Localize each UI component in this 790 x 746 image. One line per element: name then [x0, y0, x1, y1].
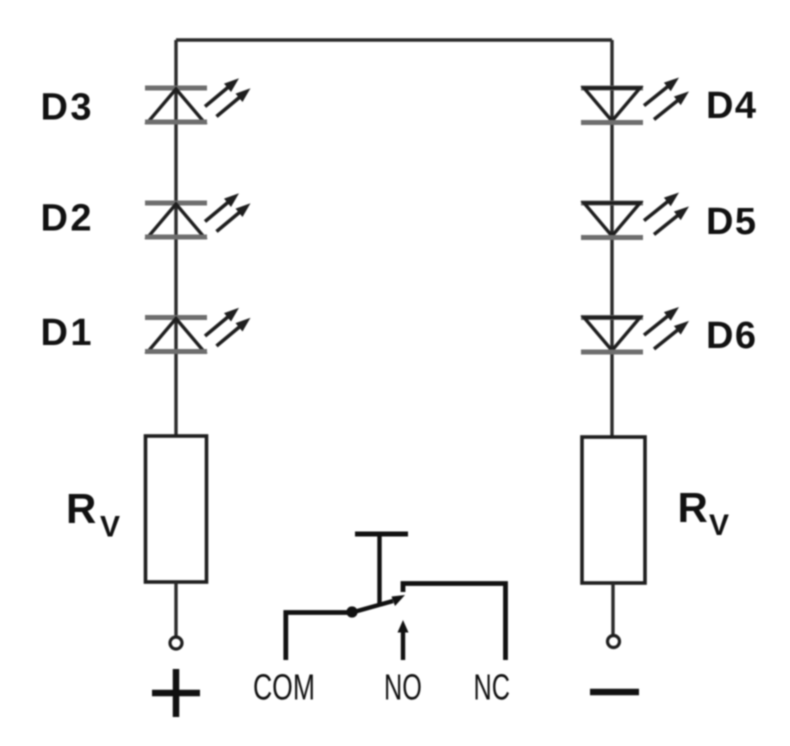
- wire: left resistor to terminal: [174, 582, 177, 637]
- wire: left vertical: [174, 40, 177, 437]
- svg-text:D6: D6: [706, 315, 756, 357]
- wire: right vertical: [610, 40, 613, 438]
- svg-text:D2: D2: [41, 198, 92, 240]
- LED D4: [581, 78, 689, 123]
- terminal circle left: [170, 637, 182, 649]
- resistor RV right: [582, 437, 645, 583]
- LED D2: [145, 193, 251, 237]
- wire: top horizontal: [176, 38, 612, 41]
- switch actuator T-bar: [355, 532, 408, 537]
- svg-text:V: V: [709, 509, 729, 542]
- svg-text:NO: NO: [384, 667, 422, 708]
- minus sign: [590, 689, 639, 696]
- svg-text:R: R: [66, 485, 96, 532]
- LED D6: [581, 307, 689, 352]
- terminal circle right: [608, 636, 620, 648]
- svg-text:R: R: [678, 484, 708, 531]
- svg-text:D4: D4: [706, 85, 756, 127]
- resistor RV left: [146, 436, 207, 582]
- wire COM: [286, 613, 352, 661]
- LED D3: [145, 78, 251, 122]
- wire: right resistor to terminal: [611, 583, 614, 635]
- plus sign: [152, 690, 200, 697]
- svg-text:D3: D3: [41, 87, 92, 129]
- wire NO with arrow: [401, 630, 405, 660]
- LED D5: [581, 193, 689, 238]
- switch lever: [352, 601, 393, 613]
- switch pivot dot: [346, 606, 357, 617]
- svg-text:D1: D1: [41, 312, 92, 354]
- svg-text:COM: COM: [253, 667, 315, 708]
- switch actuator stem: [377, 534, 381, 606]
- svg-text:D5: D5: [706, 201, 756, 243]
- svg-text:NC: NC: [474, 667, 510, 708]
- LED D1: [145, 308, 251, 352]
- wire NC: [403, 584, 506, 661]
- svg-text:V: V: [100, 511, 120, 544]
